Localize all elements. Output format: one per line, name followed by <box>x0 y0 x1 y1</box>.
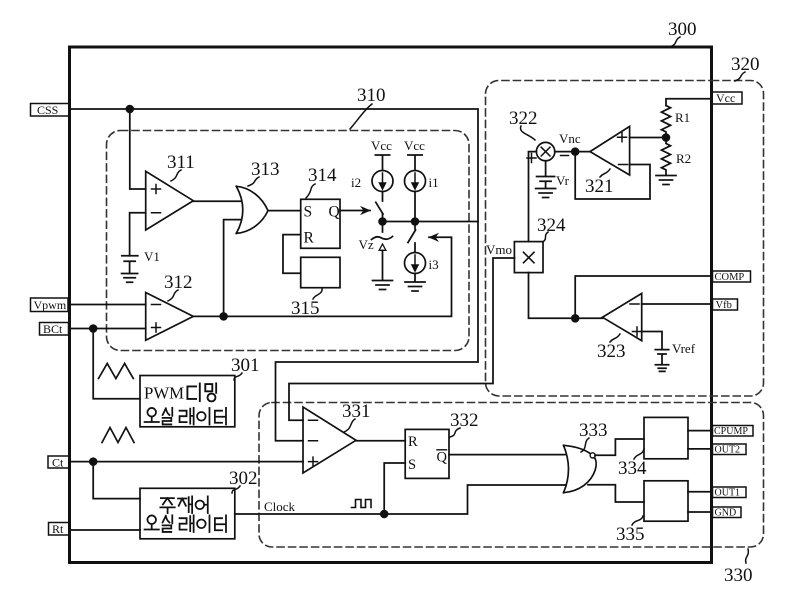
label 310 <box>350 85 386 129</box>
svg-text:302: 302 <box>229 468 258 489</box>
wire CSS net <box>70 109 479 441</box>
node R1 R2 <box>663 134 670 141</box>
svg-text:322: 322 <box>509 108 538 129</box>
label 333 <box>579 420 608 452</box>
svg-text:314: 314 <box>308 165 337 186</box>
wire latch 332 S to clock line <box>384 463 405 514</box>
wire Vfb to 323 minus <box>642 303 712 305</box>
svg-text:S: S <box>304 204 313 221</box>
svg-text:315: 315 <box>291 298 320 319</box>
wire 334 to CPUMP <box>688 430 712 432</box>
ground below Vz <box>373 281 393 290</box>
svg-text:Vpwm: Vpwm <box>34 298 67 312</box>
wire 334 to OUT2 <box>688 448 712 450</box>
wire OR 333 lower output to 335 <box>588 485 644 502</box>
wire 324 output to 323 output node <box>529 273 603 319</box>
svg-text:OUT1: OUT1 <box>715 488 741 499</box>
svg-text:Vref: Vref <box>672 341 696 356</box>
ground below R2 <box>656 176 676 185</box>
wire Vmo to 324 left input <box>289 258 514 420</box>
wire Rt to oscillator 302 <box>70 529 141 531</box>
wire 321 feedback loop <box>575 152 650 199</box>
SR latch 314 <box>301 199 340 248</box>
oscillator block 302 main control <box>140 488 235 539</box>
label 314 <box>306 165 337 198</box>
svg-text:BCt: BCt <box>43 322 63 336</box>
wire i2 to switch <box>382 192 384 202</box>
dashed block 310 <box>107 131 470 351</box>
wire latch Q output arrow <box>340 210 370 212</box>
wire COMP to node <box>575 276 712 318</box>
svg-text:Vz: Vz <box>359 237 374 252</box>
block 334 <box>644 417 688 458</box>
op-amp 323 <box>603 293 642 340</box>
wire i3 to ground <box>414 274 416 282</box>
wire Ct to 331 plus <box>70 461 304 463</box>
wire node to op-amp 321 plus <box>630 137 666 139</box>
triangle wave symbol upper <box>99 364 134 379</box>
svg-text:Vfb: Vfb <box>716 300 732 311</box>
OR gate 313 <box>236 186 268 233</box>
current source i1 <box>405 171 426 192</box>
OR gate 333 with output bubble <box>564 445 597 492</box>
label 330 <box>724 549 753 586</box>
svg-text:Ct: Ct <box>52 456 64 470</box>
svg-text:V1: V1 <box>144 249 160 264</box>
block 315 <box>301 257 340 287</box>
svg-text:i2: i2 <box>351 175 361 190</box>
svg-text:301: 301 <box>231 355 260 376</box>
switch blade i3 <box>408 230 416 243</box>
wire Vz to ground <box>382 251 384 281</box>
svg-text:332: 332 <box>450 410 479 431</box>
label 332 <box>450 410 479 437</box>
node 323 output <box>572 315 579 322</box>
label 313 <box>248 159 280 186</box>
svg-text:323: 323 <box>597 341 626 362</box>
label 315 <box>291 288 322 319</box>
node clock junction <box>381 511 388 518</box>
pin Rt <box>49 522 70 536</box>
svg-text:GND: GND <box>715 508 737 519</box>
pin CSS <box>31 103 70 117</box>
clock waveform symbol <box>352 500 372 508</box>
wire OR 313 output to latch S <box>268 210 301 212</box>
wire latch R to block 315 <box>283 235 301 274</box>
svg-text:R1: R1 <box>675 110 690 125</box>
node 312 output junction <box>220 313 227 320</box>
triangle wave symbol lower <box>102 428 134 443</box>
oscillator block 301 PWM dimming <box>140 376 235 427</box>
svg-text:PWM: PWM <box>144 384 184 403</box>
label 322 <box>509 108 538 140</box>
wire Vcc rail i2 <box>375 155 389 171</box>
wire i3 switch to i3 <box>414 243 416 253</box>
label 334 <box>618 449 647 479</box>
ground below Vref <box>655 365 668 372</box>
label 331 <box>342 401 371 432</box>
wire 335 to OUT1 <box>688 491 712 493</box>
current source i2 <box>372 171 393 192</box>
svg-text:Q: Q <box>329 204 340 221</box>
wire Vcc rail i1 <box>408 155 422 171</box>
svg-text:Clock: Clock <box>264 499 296 514</box>
svg-text:Vmo: Vmo <box>486 242 512 257</box>
switch Vz blade <box>372 237 393 240</box>
capacitor Vr <box>537 161 555 188</box>
multiplier 324 <box>514 242 543 273</box>
wire node to i3 switch <box>414 222 416 230</box>
block 335 <box>644 481 688 521</box>
resistor R1 <box>662 106 671 138</box>
wire BCt branch to PWM oscillator 301 <box>93 329 140 399</box>
wire 321 output to multiplier 322 <box>555 151 590 153</box>
pin Ct <box>48 456 69 470</box>
svg-text:331: 331 <box>342 401 371 422</box>
svg-text:CSS: CSS <box>37 103 58 117</box>
ground below i3 <box>405 282 425 291</box>
svg-text:Rt: Rt <box>52 522 64 536</box>
svg-text:335: 335 <box>616 524 645 545</box>
wire CSS to 311 plus input <box>130 109 146 189</box>
svg-text:R: R <box>304 230 315 247</box>
arrowhead i3 control <box>430 234 438 241</box>
SR latch 332 <box>405 429 449 478</box>
pin OUT1 <box>713 487 747 499</box>
resistor R2 <box>662 138 671 176</box>
node Ct junction <box>90 458 97 465</box>
wire node to Vz switch <box>382 222 384 233</box>
wire 311 minus to V1 <box>130 213 146 256</box>
svg-text:R: R <box>408 434 418 450</box>
svg-text:330: 330 <box>724 565 753 586</box>
svg-text:Q: Q <box>437 450 448 466</box>
op-amp 311 <box>146 171 194 230</box>
node i2 leg <box>379 218 386 225</box>
wire 311 output to OR 313 <box>193 200 241 202</box>
node CSS junction <box>126 106 133 113</box>
pin Vcc <box>712 91 742 105</box>
wire Vcc pin to R1 <box>666 99 712 106</box>
label 301 <box>231 355 260 380</box>
wire 323 plus to Vref <box>642 332 662 349</box>
ground below Vr <box>536 189 556 198</box>
label 300 <box>668 19 697 47</box>
IC outer box 300 <box>70 47 712 563</box>
label 323 <box>597 334 626 362</box>
svg-text:324: 324 <box>537 215 566 236</box>
svg-text:300: 300 <box>668 19 697 40</box>
arrowhead Q output <box>362 207 370 214</box>
svg-text:313: 313 <box>251 159 280 180</box>
label 324 <box>537 215 566 242</box>
wire 312 output to OR 313 lower input <box>224 220 242 317</box>
label 320 <box>731 54 760 81</box>
wire switch to node <box>382 214 384 222</box>
svg-text:Vcc: Vcc <box>371 138 392 153</box>
wire Vpwm to 312 minus <box>70 304 146 306</box>
wire current node to CSS vertical <box>383 221 479 223</box>
wire i1 to node <box>414 192 416 222</box>
pin Vpwm <box>31 298 69 312</box>
label 321 <box>585 169 614 197</box>
svg-text:i3: i3 <box>429 257 439 272</box>
wire BCt to 312 plus <box>70 328 146 330</box>
svg-text:OUT2: OUT2 <box>715 445 741 456</box>
pin COMP <box>713 271 751 283</box>
op-amp 321 <box>590 126 630 175</box>
svg-text:334: 334 <box>618 458 647 479</box>
svg-text:i1: i1 <box>429 175 439 190</box>
pin CPUMP <box>713 426 754 438</box>
wire 335 to GND <box>688 511 712 513</box>
svg-text:Vr: Vr <box>556 173 570 188</box>
node BCt junction <box>90 325 97 332</box>
svg-text:CPUMP: CPUMP <box>714 426 748 437</box>
ground below V1 <box>122 274 138 283</box>
svg-text:COMP: COMP <box>715 272 745 283</box>
dashed block 320 <box>486 80 764 396</box>
svg-text:R2: R2 <box>676 151 691 166</box>
wire Ct branch to oscillator 302 <box>93 462 140 499</box>
svg-text:Vnc: Vnc <box>559 131 581 146</box>
current source i3 <box>405 253 426 274</box>
label 311 <box>167 152 195 181</box>
node i1 leg <box>412 218 419 225</box>
wire latch 332 Qbar to OR 333 upper input <box>449 454 565 456</box>
node Vnc <box>572 148 579 155</box>
op-amp 331 <box>303 407 356 473</box>
svg-text:Vcc: Vcc <box>716 91 735 105</box>
wire clock line from 302 to OR 333 lower input <box>235 485 565 514</box>
svg-text:321: 321 <box>585 176 614 197</box>
wire 331 output to latch 332 R <box>356 440 405 442</box>
pin GND <box>713 507 742 519</box>
arrowhead Vz up <box>379 244 386 250</box>
svg-text:333: 333 <box>579 420 608 441</box>
label 302 <box>229 468 258 493</box>
svg-text:S: S <box>408 457 416 473</box>
capacitor V1 <box>122 256 138 274</box>
op-amp 312 <box>146 293 194 341</box>
dashed block 330 <box>259 403 764 548</box>
wire OR 333 upper output to 334 <box>595 439 644 455</box>
capacitor Vref <box>655 350 668 365</box>
svg-text:310: 310 <box>357 85 386 106</box>
multiplier 322 <box>527 142 569 162</box>
svg-text:Vcc: Vcc <box>404 138 425 153</box>
wire 322 plus input down to 324 <box>529 152 537 242</box>
label 335 <box>616 516 645 545</box>
pin Vfb <box>713 299 738 311</box>
label 312 <box>164 272 193 301</box>
pin BCt <box>40 322 69 336</box>
pin OUT2 <box>713 444 747 456</box>
switch blade i2 <box>376 202 383 214</box>
wire 312 output to i3 switch control with arrow <box>193 237 451 316</box>
